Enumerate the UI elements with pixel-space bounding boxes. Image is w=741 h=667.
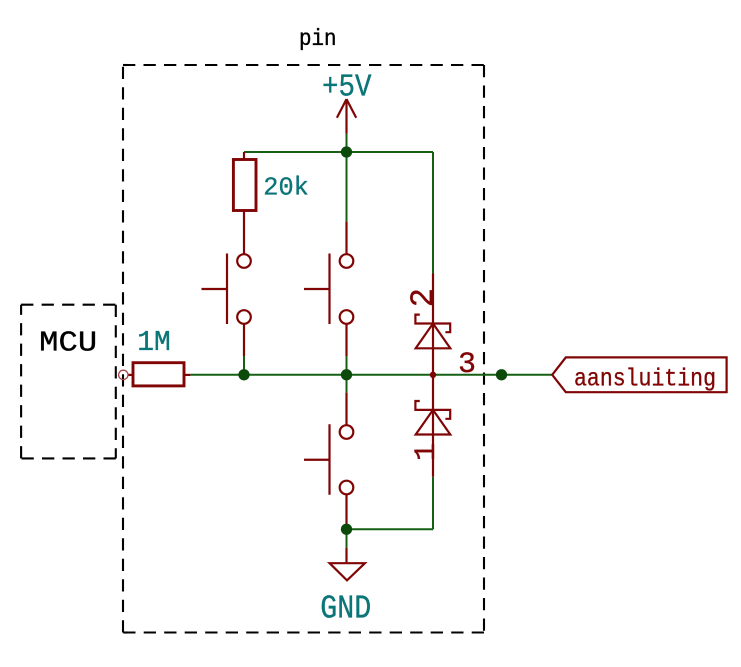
svg-text:2: 2 bbox=[405, 288, 442, 307]
svg-text:pin: pin bbox=[299, 26, 337, 52]
svg-text:1M: 1M bbox=[137, 326, 171, 359]
svg-text:3: 3 bbox=[458, 348, 476, 382]
svg-text:MCU: MCU bbox=[39, 327, 97, 360]
svg-text:GND: GND bbox=[320, 590, 371, 627]
svg-text:+5V: +5V bbox=[322, 71, 372, 106]
svg-text:aansluiting: aansluiting bbox=[574, 364, 716, 393]
svg-text:1: 1 bbox=[410, 443, 444, 461]
svg-text:20k: 20k bbox=[263, 172, 309, 202]
